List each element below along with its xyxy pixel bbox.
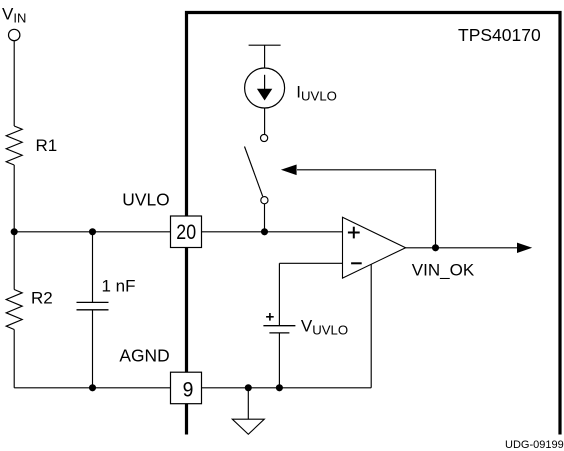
wire VUVLO top lead <box>278 263 280 325</box>
svg-text:R1: R1 <box>36 136 58 155</box>
wire hysteresis feedback <box>297 170 436 248</box>
junction dot ground AGND <box>245 384 252 391</box>
switch S1 blade <box>245 147 263 197</box>
op-amp comparator U2 <box>343 217 406 278</box>
wire switch to UVLO net <box>264 204 266 232</box>
svg-text:1 nF: 1 nF <box>102 277 136 296</box>
wire comparator ground stub <box>370 264 372 387</box>
resistor R2 <box>6 290 22 330</box>
pin 20 box <box>171 216 202 248</box>
wire UVLO node down to R2 <box>13 232 15 290</box>
junction dot VUVLO AGND <box>276 384 283 391</box>
wire VUVLO bottom lead <box>278 333 280 388</box>
arrowhead VIN_OK output <box>517 243 532 253</box>
wire minus input to VUVLO <box>279 262 342 264</box>
switch S1 bottom contact <box>261 197 268 204</box>
battery VUVLO <box>263 326 295 333</box>
svg-text:9: 9 <box>183 377 194 401</box>
junction dot capacitor bottom <box>89 384 96 391</box>
resistor R1 <box>6 126 22 165</box>
IC boundary box U1 TPS40170 <box>187 13 561 435</box>
svg-text:VIN_OK: VIN_OK <box>412 260 475 279</box>
junction dot capacitor top <box>89 228 96 235</box>
arrowhead feedback to switch <box>281 165 297 176</box>
wire capacitor bottom lead <box>92 310 94 388</box>
capacitor C1 1 nF <box>77 302 109 309</box>
svg-text:R2: R2 <box>31 288 53 307</box>
wire capacitor top lead <box>92 232 94 303</box>
minus input marking <box>351 262 362 264</box>
svg-text:UDG-09199: UDG-09199 <box>505 439 564 451</box>
current source IUVLO supply bar <box>249 44 281 46</box>
wire comparator output VIN_OK <box>406 247 518 249</box>
battery plus sign <box>266 313 274 321</box>
wire AGND net horizontal <box>14 387 371 389</box>
junction dot output feedback <box>432 244 439 251</box>
junction dot switch UVLO net <box>261 228 268 235</box>
pin 9 box <box>171 372 202 404</box>
svg-text:20: 20 <box>176 220 196 244</box>
wire R2 to AGND net <box>13 330 15 388</box>
current source IUVLO <box>245 68 285 108</box>
wire VIN to R1 <box>13 41 15 126</box>
wire UVLO net horizontal <box>14 231 342 233</box>
ground symbol <box>232 419 264 434</box>
junction dot UVLO net left <box>11 228 18 235</box>
switch S1 top contact <box>261 134 268 141</box>
svg-text:UVLO: UVLO <box>122 190 169 210</box>
plus input marking <box>348 227 360 239</box>
wire bar to current source <box>264 45 266 68</box>
wire R1 to UVLO node <box>13 165 15 232</box>
wire AGND to ground symbol <box>247 388 249 419</box>
wire current source to switch <box>264 108 266 134</box>
svg-text:AGND: AGND <box>119 346 169 366</box>
svg-text:TPS40170: TPS40170 <box>458 25 541 45</box>
node VIN terminal <box>9 29 20 40</box>
